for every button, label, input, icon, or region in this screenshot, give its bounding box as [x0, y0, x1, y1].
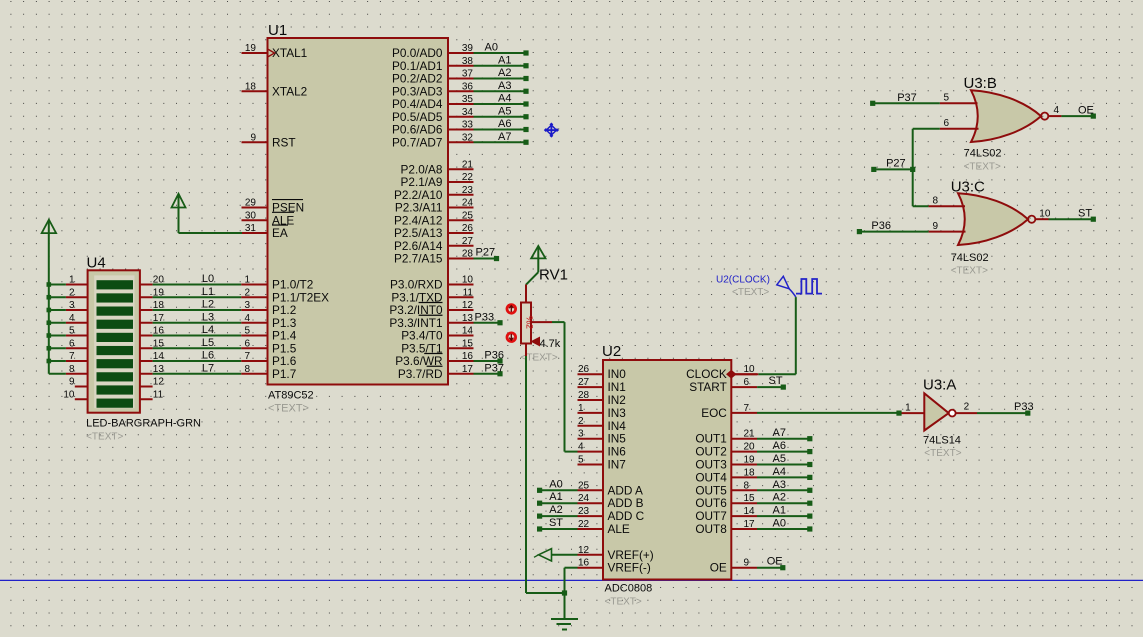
svg-text:4: 4	[1054, 105, 1060, 116]
U4 pin 10	[63, 389, 87, 400]
U1 pin 2 P1.1	[241, 287, 329, 304]
wire U4 pin 5 to power rail	[49, 335, 66, 337]
svg-text:L1: L1	[202, 286, 214, 298]
svg-text:ST: ST	[769, 375, 783, 387]
wire net A0 from U2 OUT8	[757, 518, 812, 532]
wire U2 EOC to U3:A input	[757, 411, 902, 416]
svg-text:29: 29	[245, 198, 257, 209]
U2 pin 23 ADD C	[578, 506, 645, 523]
svg-text:A6: A6	[498, 118, 511, 130]
svg-text:A4: A4	[773, 466, 786, 478]
wire net A5 from U1 pin 34	[474, 105, 529, 119]
svg-text:IN5: IN5	[608, 432, 627, 446]
svg-text:27: 27	[578, 377, 590, 388]
wire EA to power arrow	[179, 232, 243, 234]
U1 pin 27 P2.6/A14	[394, 236, 474, 253]
svg-text:IN4: IN4	[608, 419, 627, 433]
svg-text:3: 3	[244, 300, 250, 311]
U1 pin 5 P1.4	[241, 326, 297, 343]
U2 pin 18 OUT4	[695, 467, 757, 484]
svg-text:XTAL2: XTAL2	[272, 84, 307, 98]
U2 pin 5 IN7	[578, 455, 626, 472]
U1 pin 30 ALE	[242, 210, 295, 227]
U4 pin 4	[66, 313, 88, 324]
svg-text:4: 4	[69, 313, 75, 324]
U2 pin 10 CLOCK	[686, 364, 757, 381]
svg-text:OE: OE	[1078, 105, 1094, 117]
U1 pin 6 P1.5	[241, 338, 297, 355]
U4 pin 3	[66, 300, 88, 311]
U3:C pin 10 output	[1036, 209, 1051, 220]
svg-text:5: 5	[943, 93, 949, 104]
U1 pin 11 P3.1/TXD	[391, 287, 473, 304]
svg-text:A6: A6	[773, 440, 786, 452]
svg-text:RST: RST	[272, 135, 296, 149]
nor gate U3:B 74LS02	[964, 75, 1049, 173]
U1 pin 12 P3.2/INT0	[389, 300, 473, 317]
power arrow at U2 VREF(+)	[534, 549, 552, 561]
svg-text:U1: U1	[268, 22, 287, 39]
svg-text:START: START	[689, 380, 727, 394]
wire U4 power rail vertical	[48, 234, 50, 374]
wire net L5 U4 pin 15 to U1 pin 6	[153, 337, 242, 349]
ic U2 ADC0808 body	[602, 343, 731, 608]
ic U1 AT89C52 body	[268, 22, 449, 415]
svg-text:17: 17	[462, 364, 474, 375]
wire U4 pin 3 to power rail	[49, 309, 66, 311]
U2 pin 27 IN1	[578, 377, 626, 394]
svg-text:4.7k: 4.7k	[540, 338, 561, 350]
svg-text:L2: L2	[202, 299, 214, 311]
svg-text:VREF(+): VREF(+)	[608, 548, 654, 562]
wire net ST from U3:C pin 10	[1049, 208, 1096, 222]
U2 pin 3 IN5	[578, 429, 627, 446]
U2 pin 28 IN2	[578, 390, 626, 407]
svg-text:A3: A3	[498, 80, 511, 92]
wire net A0 to U2 ADD/ALE pin	[537, 478, 578, 493]
wire net L7 U4 pin 13 to U1 pin 8	[153, 362, 242, 374]
svg-text:26: 26	[462, 223, 474, 234]
svg-text:12: 12	[153, 377, 165, 388]
wire net A1 from U1 pin 38	[474, 54, 529, 68]
wire net OE from U3:B pin 4	[1061, 105, 1095, 119]
RV1 increment button	[507, 305, 516, 314]
svg-text:<TEXT>: <TEXT>	[732, 287, 769, 298]
power arrow above RV1	[531, 246, 545, 272]
svg-text:A2: A2	[498, 67, 511, 79]
svg-text:2: 2	[69, 287, 75, 298]
wire VREF(+) to arrow	[552, 554, 578, 556]
svg-text:P27: P27	[886, 158, 906, 170]
svg-text:5: 5	[69, 326, 75, 337]
U1 pin 8 P1.7	[241, 364, 296, 381]
svg-text:IN6: IN6	[608, 445, 627, 459]
svg-text:L3: L3	[202, 311, 214, 323]
RV1 wiper arrow	[532, 337, 540, 345]
svg-text:A7: A7	[773, 427, 786, 439]
wire net P33 from U3:A output	[977, 401, 1034, 416]
svg-text:39: 39	[462, 43, 474, 54]
U4 pin 13	[140, 364, 164, 375]
U1 pin 38 P0.1/AD1	[392, 56, 474, 73]
svg-text:A4: A4	[498, 93, 511, 105]
wire net L4 U4 pin 16 to U1 pin 5	[153, 324, 242, 336]
wire RV1 wiper to U2 IN6	[552, 322, 578, 452]
svg-text:IN1: IN1	[608, 380, 626, 394]
U4 pin 11	[140, 389, 164, 400]
U2 pin 17 OUT8	[695, 519, 757, 536]
junction on power rail row 2	[47, 295, 52, 300]
U3:B pin 5 input	[940, 93, 978, 104]
U1 pin 18 XTAL2	[242, 81, 308, 98]
svg-text:P37: P37	[484, 362, 504, 374]
svg-text:2: 2	[578, 416, 584, 427]
svg-text:P3.7/RD: P3.7/RD	[398, 367, 443, 381]
svg-text:ADD A: ADD A	[608, 483, 644, 497]
svg-text:2: 2	[244, 287, 250, 298]
svg-text:9: 9	[69, 377, 75, 388]
svg-text:<TEXT>: <TEXT>	[951, 266, 988, 277]
svg-text:22: 22	[462, 172, 474, 183]
potentiometer RV1	[521, 267, 568, 344]
U1 pin 32 P0.7/AD7	[392, 132, 474, 149]
wire power arrow to RV1 top	[526, 272, 538, 285]
wire net L2 U4 pin 18 to U1 pin 3	[153, 299, 242, 311]
U3:C pin 9 input	[929, 221, 966, 232]
wire net L3 U4 pin 17 to U1 pin 4	[153, 311, 242, 323]
svg-text:19: 19	[744, 455, 756, 466]
U4 pin 18	[140, 300, 164, 311]
wire net A1 from U2 OUT7	[757, 505, 812, 519]
svg-text:11: 11	[153, 389, 164, 400]
svg-text:ST: ST	[549, 517, 563, 529]
wire net L1 U4 pin 19 to U1 pin 2	[153, 286, 242, 298]
svg-text:1: 1	[905, 403, 911, 414]
svg-text:12: 12	[578, 545, 590, 556]
RV1 bottom pin	[525, 344, 527, 357]
led bargraph U4 body	[86, 255, 201, 443]
svg-text:16: 16	[578, 558, 590, 569]
wire net OE from U2 pin 9	[757, 556, 785, 571]
svg-text:1: 1	[578, 403, 584, 414]
U1 pin 4 P1.3	[241, 313, 297, 330]
U1 pin 39 P0.0/AD0	[392, 43, 474, 60]
U1 pin 16 P3.6/WR	[395, 351, 473, 368]
svg-text:24: 24	[578, 493, 590, 504]
svg-text:12: 12	[462, 300, 474, 311]
svg-text:25: 25	[462, 210, 474, 221]
svg-text:6: 6	[744, 377, 750, 388]
junction on power rail row 4	[47, 320, 52, 325]
U1 pin 14 P3.4/T0	[401, 326, 473, 343]
U1 pin 37 P0.2/AD2	[392, 69, 474, 86]
svg-text:<TEXT>: <TEXT>	[86, 432, 123, 443]
svg-text:9: 9	[250, 132, 256, 143]
U4 pin 2	[66, 287, 88, 298]
junction on power rail row 7	[47, 359, 52, 364]
U1 pin 10 P3.0/RXD	[390, 275, 473, 292]
wire net A2 to U2 ADD/ALE pin	[537, 504, 578, 519]
wire net A7 from U1 pin 32	[474, 131, 529, 145]
U4 pin 20	[140, 275, 164, 286]
svg-text:A5: A5	[498, 105, 511, 117]
inverter U3:A 74LS14	[923, 377, 962, 460]
wire net A3 from U2 OUT5	[757, 479, 812, 493]
junction at P27 tee	[910, 167, 915, 172]
svg-text:18: 18	[744, 467, 756, 478]
U2 pin 25 ADD A	[578, 480, 644, 497]
U1 pin 26 P2.5/A13	[394, 223, 474, 240]
wire net L0 U4 pin 20 to U1 pin 1	[153, 273, 242, 285]
svg-text:7: 7	[744, 403, 750, 414]
U1 pin 34 P0.5/AD5	[392, 107, 474, 124]
svg-text:A3: A3	[773, 479, 786, 491]
svg-text:3: 3	[578, 429, 584, 440]
svg-text:A1: A1	[773, 505, 786, 517]
svg-text:OUT4: OUT4	[695, 470, 727, 484]
svg-text:ADD C: ADD C	[608, 509, 645, 523]
wire clock generator to U2 CLOCK	[758, 297, 796, 374]
U1 pin 13 P3.3/INT1	[389, 313, 473, 330]
svg-text:8: 8	[69, 364, 75, 375]
svg-text:9: 9	[932, 221, 938, 232]
U2 pin 1 IN3	[578, 403, 627, 420]
svg-text:74LS02: 74LS02	[951, 252, 989, 264]
svg-text:24: 24	[462, 198, 474, 209]
U4 pin 7	[66, 351, 88, 362]
wire net A2 from U1 pin 37	[474, 67, 529, 81]
U4 pin 8	[66, 364, 88, 375]
svg-text:10: 10	[462, 275, 474, 286]
wire U4 pin 8 to power rail	[49, 373, 66, 375]
svg-text:3: 3	[69, 300, 75, 311]
svg-text:1: 1	[244, 275, 250, 286]
svg-text:OUT5: OUT5	[695, 483, 727, 497]
svg-text:6: 6	[69, 338, 75, 349]
svg-text:<TEXT>: <TEXT>	[268, 403, 309, 415]
wire net A6 from U2 OUT2	[757, 440, 812, 454]
svg-text:L7: L7	[202, 362, 214, 374]
svg-text:OUT6: OUT6	[695, 496, 727, 510]
wire net A2 from U2 OUT6	[757, 492, 812, 506]
svg-text:P37: P37	[897, 92, 917, 104]
svg-text:33: 33	[462, 120, 474, 131]
svg-text:16: 16	[462, 351, 474, 362]
junction on power rail row 5	[47, 333, 52, 338]
wire net P37 to U3:B pin 5	[870, 92, 940, 106]
svg-text:L5: L5	[202, 337, 214, 349]
svg-text:<TEXT>: <TEXT>	[964, 162, 1001, 173]
svg-text:OUT2: OUT2	[695, 445, 726, 459]
wire U4 pin 2 to power rail	[49, 296, 66, 298]
svg-text:P27: P27	[476, 247, 496, 259]
wire net ST from U2 START	[757, 375, 786, 390]
U2 pin 19 OUT3	[695, 455, 757, 472]
U1 pin 7 P1.6	[241, 351, 297, 368]
svg-text:ADD B: ADD B	[608, 496, 644, 510]
svg-text:U3:B: U3:B	[964, 75, 997, 92]
svg-text:11: 11	[463, 287, 474, 298]
wire U4 pin 4 to power rail	[49, 322, 66, 324]
wire net P27 to U3:B pin 6 and U3:C pin 8	[871, 129, 940, 207]
junction on power rail row 6	[47, 346, 52, 351]
U2 pin 4 IN6	[578, 442, 627, 459]
U1 pin 15 P3.5/T1	[401, 338, 473, 355]
svg-text:P1.7: P1.7	[272, 367, 296, 381]
wire VREF(-) to ground rail	[565, 568, 578, 619]
svg-text:25: 25	[578, 480, 590, 491]
svg-text:OUT7: OUT7	[695, 509, 726, 523]
junction on power rail row 3	[47, 308, 52, 313]
svg-text:<TEXT>: <TEXT>	[924, 448, 961, 459]
RV1 decrement button	[507, 333, 516, 342]
U2 pin 9 OE	[710, 558, 757, 575]
U4 pin 16	[140, 326, 164, 337]
svg-text:OE: OE	[767, 556, 783, 568]
svg-text:P0.7/AD7: P0.7/AD7	[392, 135, 443, 149]
U4 pin 17	[140, 313, 164, 324]
svg-text:14: 14	[744, 506, 756, 517]
wire net A0 from U1 pin 39	[474, 42, 529, 56]
svg-text:28: 28	[462, 249, 474, 260]
svg-text:9: 9	[744, 558, 750, 569]
U3:B pin 4 output	[1049, 105, 1062, 116]
wire net A3 from U1 pin 36	[474, 80, 529, 94]
power arrow at U1 EA	[172, 194, 186, 233]
svg-text:VREF(-): VREF(-)	[608, 561, 651, 575]
svg-text:4: 4	[244, 313, 250, 324]
svg-text:U2(CLOCK): U2(CLOCK)	[716, 275, 770, 286]
wire U4 pin 6 to power rail	[49, 347, 66, 349]
wire net P36 from U1 pin 16	[474, 350, 505, 364]
svg-text:A0: A0	[549, 478, 562, 490]
U3:C pin 8 input	[929, 196, 965, 207]
U1 pin 29 PSEN	[242, 198, 305, 215]
U2 pin 16 VREF(-)	[578, 558, 651, 575]
U1 pin 1 P1.0	[241, 275, 313, 292]
wire U4 pin 1 to power rail	[49, 284, 66, 286]
wire RV1 bottom to ground rail	[526, 356, 565, 593]
svg-text:IN2: IN2	[608, 393, 626, 407]
U2 pin 12 VREF(+)	[578, 545, 654, 562]
RV1 top pin	[525, 285, 527, 304]
svg-text:30: 30	[245, 210, 257, 221]
svg-text:36: 36	[462, 81, 474, 92]
svg-text:A2: A2	[549, 504, 562, 516]
wire net L6 U4 pin 14 to U1 pin 7	[153, 350, 242, 362]
svg-text:IN7: IN7	[608, 458, 626, 472]
svg-text:19: 19	[245, 43, 257, 54]
U4 pin 15	[140, 338, 164, 349]
svg-text:A7: A7	[498, 131, 511, 143]
junction on power rail row 1	[47, 282, 52, 287]
wire net P27 from U1 pin 28	[474, 247, 500, 262]
svg-text:P36: P36	[871, 220, 891, 232]
U1 pin 35 P0.4/AD4	[392, 94, 474, 111]
svg-text:22: 22	[578, 519, 590, 530]
svg-text:A2: A2	[773, 492, 786, 504]
U2 pin 8 OUT5	[695, 480, 757, 497]
wire net A7 from U2 OUT1	[757, 427, 812, 441]
U3:B pin 6 input	[940, 118, 979, 129]
svg-text:17: 17	[744, 519, 756, 530]
svg-text:L4: L4	[202, 324, 214, 336]
svg-text:23: 23	[578, 506, 590, 517]
U2 pin 20 OUT2	[695, 442, 757, 459]
svg-text:L0: L0	[202, 273, 214, 285]
U2 pin 26 IN0	[578, 364, 627, 381]
svg-text:LED-BARGRAPH-GRN: LED-BARGRAPH-GRN	[86, 418, 201, 430]
svg-text:26: 26	[578, 364, 590, 375]
svg-text:28: 28	[578, 390, 590, 401]
U2 pin 22 ALE	[578, 519, 630, 536]
svg-text:31: 31	[245, 223, 257, 234]
U3:A pin 1 input	[901, 403, 924, 414]
U3:A pin 2 output	[956, 402, 977, 414]
svg-text:8: 8	[244, 364, 250, 375]
svg-text:21: 21	[462, 159, 474, 170]
U2 pin 24 ADD B	[578, 493, 644, 510]
svg-text:ADC0808: ADC0808	[605, 583, 653, 595]
U4 pin 5	[66, 326, 88, 337]
cursor crosshair marker	[545, 123, 559, 137]
U4 pin 12	[140, 377, 164, 388]
U4 pin 14	[140, 351, 164, 362]
svg-text:74LS14: 74LS14	[923, 435, 961, 447]
signal generator U2(CLOCK)	[716, 275, 822, 299]
U1 XTAL1 clock arrow	[268, 49, 274, 56]
svg-text:OUT8: OUT8	[695, 522, 727, 536]
svg-text:P2.7/A15: P2.7/A15	[394, 252, 443, 266]
svg-text:7: 7	[69, 351, 75, 362]
svg-text:15: 15	[462, 338, 474, 349]
wire net P37 from U1 pin 17	[474, 362, 505, 376]
wire net A5 from U2 OUT3	[757, 453, 812, 467]
svg-text:4: 4	[578, 442, 584, 453]
svg-text:8: 8	[932, 196, 938, 207]
svg-text:A0: A0	[485, 42, 498, 54]
U1 pin 25 P2.4/A12	[394, 210, 474, 227]
svg-text:OUT3: OUT3	[695, 458, 727, 472]
svg-text:CLOCK: CLOCK	[686, 367, 727, 381]
U1 pin 9 RST	[242, 132, 296, 149]
wire net ST to U2 ADD/ALE pin	[537, 517, 578, 532]
U4 pin 1	[66, 275, 88, 286]
wire net A4 from U1 pin 35	[474, 93, 529, 107]
RV1 wiper pin	[531, 321, 552, 323]
wire net P33 from U1 pin 13	[474, 311, 503, 325]
svg-text:RV1: RV1	[539, 267, 568, 284]
U4 pin 9	[69, 377, 88, 388]
U1 pin 19 XTAL1	[242, 43, 308, 60]
svg-text:P33: P33	[1014, 401, 1034, 413]
U4 pin 19	[140, 287, 164, 298]
svg-text:2: 2	[964, 402, 970, 413]
svg-text:7: 7	[244, 351, 250, 362]
U1 pin 3 P1.2	[241, 300, 296, 317]
svg-text:P36: P36	[484, 350, 504, 362]
svg-text:EOC: EOC	[701, 406, 727, 420]
svg-text:U3:A: U3:A	[923, 377, 956, 394]
svg-text:IN0: IN0	[608, 367, 627, 381]
svg-text:A0: A0	[773, 518, 786, 530]
svg-text:35: 35	[462, 94, 474, 105]
U1 pin 22 P2.1/A9	[401, 172, 474, 189]
nor gate U3:C 74LS02	[951, 179, 1036, 277]
U2 pin 2 IN4	[578, 416, 627, 433]
svg-text:13: 13	[462, 313, 474, 324]
junction at ground rail	[562, 590, 567, 595]
